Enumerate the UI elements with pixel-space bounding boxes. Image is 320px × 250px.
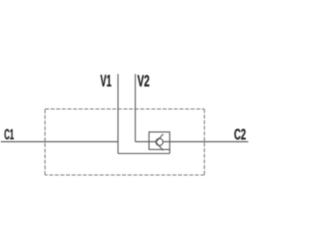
wire V1 vertical [117, 74, 119, 154]
wire V2 vertical [134, 74, 136, 142]
wire pilot bottom run [118, 153, 170, 155]
wire V2 to C2 main line [135, 141, 248, 143]
check valve ball [156, 138, 163, 145]
wire riser to pilot run [169, 149, 171, 153]
check valve box [149, 132, 170, 150]
wire through check valve [149, 141, 170, 143]
port label C1 [5, 129, 14, 139]
port label V2 [137, 75, 149, 86]
wire C1 main line [1, 141, 118, 143]
port label C2 [234, 129, 245, 140]
port label V1 [100, 75, 111, 87]
check valve seat [156, 134, 163, 150]
valve body enclosure (dashed) [45, 109, 204, 175]
